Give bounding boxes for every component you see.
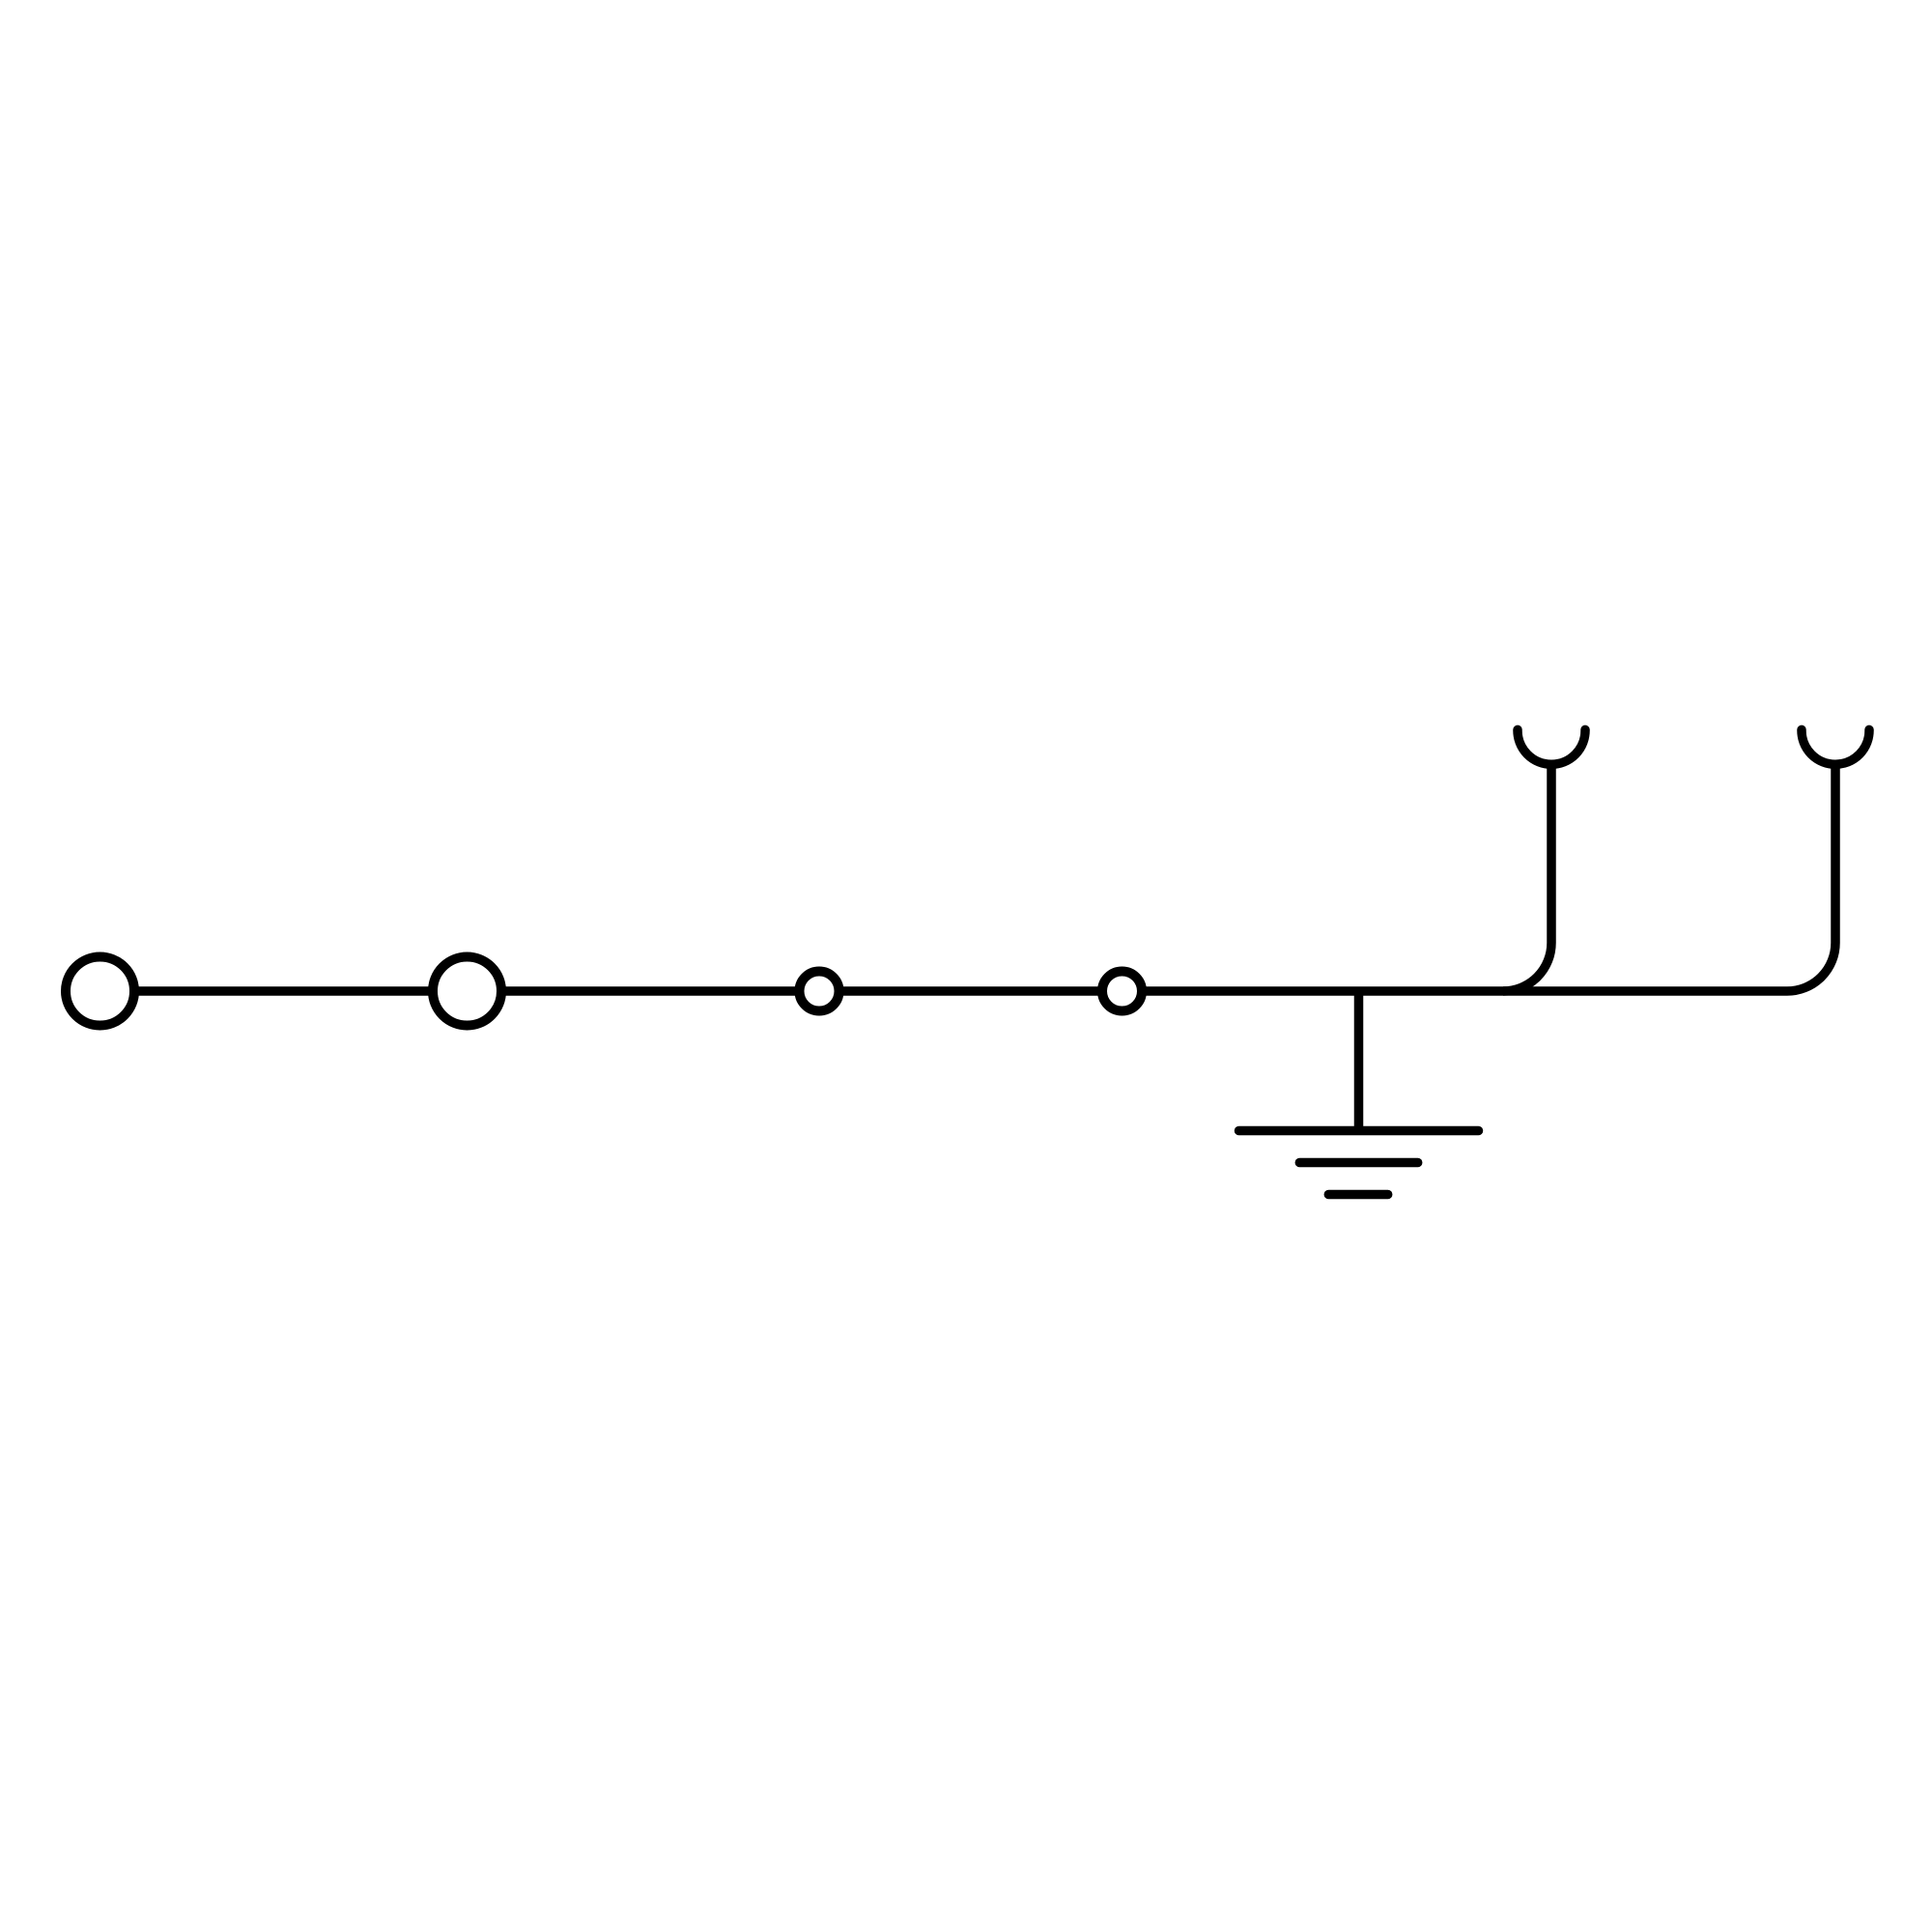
terminal circle 3 (800, 972, 839, 1011)
fork cup 1 (1518, 729, 1585, 764)
ground bar 2 (1299, 1158, 1417, 1168)
terminal circle 1 (66, 957, 134, 1026)
wire branch to fork 1 (1503, 764, 1551, 991)
ground stem wire (1354, 991, 1364, 1131)
terminal circle 2 (433, 957, 501, 1026)
terminal circle 4 (1102, 972, 1142, 1011)
ground bar 1 (1239, 1126, 1479, 1136)
wire main horizontal bus with right-end curve up to fork 2 (100, 764, 1836, 991)
ground bar 3 (1328, 1190, 1387, 1200)
fork cup 2 (1802, 729, 1869, 764)
